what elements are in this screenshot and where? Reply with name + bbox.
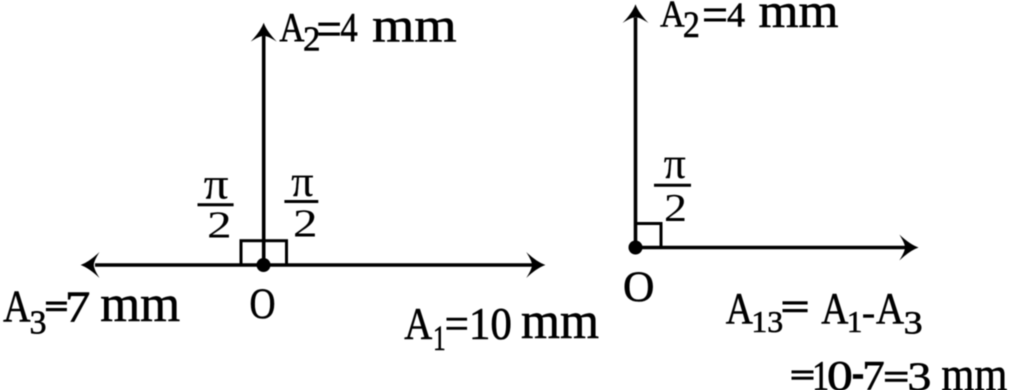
svg-text:A: A (279, 4, 304, 50)
svg-text:2: 2 (207, 204, 232, 246)
svg-text:π: π (291, 157, 314, 206)
svg-text:mm: mm (759, 0, 839, 38)
svg-text:4: 4 (340, 4, 358, 50)
right diagram: arrowhead of vector A13 (right tip) (899, 235, 918, 261)
label =10-7=3 mm: minus sign (853, 374, 863, 379)
label A13: = sign top bar (783, 301, 808, 304)
svg-text:3: 3 (904, 306, 923, 342)
right diagram: fraction bar of pi/2 (654, 184, 691, 187)
label A3: = sign bottom bar (46, 308, 67, 311)
right diagram: arrowhead of vector A2 (top tip) (623, 4, 649, 23)
left diagram: fraction bar of right pi/2 (284, 200, 318, 203)
left diagram: arrowhead of vector A3 (left tip) (81, 252, 100, 278)
label A2 (left): = sign top bar (318, 23, 340, 26)
svg-text:2: 2 (303, 20, 321, 59)
label =10-7=3: second = bottom bar (885, 379, 908, 382)
left diagram: vertical axis wire (vector A2) (262, 36, 266, 265)
svg-text:A: A (3, 281, 30, 332)
node O: left origin dot (257, 258, 271, 272)
svg-text:mm: mm (521, 293, 599, 350)
label A2 (right): = sign bottom bar (704, 18, 726, 21)
right diagram: horizontal axis wire (vector A13) (636, 246, 906, 250)
svg-text:2: 2 (293, 201, 318, 245)
svg-text:O: O (623, 263, 654, 311)
svg-text:3: 3 (907, 354, 931, 390)
svg-text:A: A (660, 0, 685, 36)
left diagram: horizontal axis wire (A3 left / A1 right) (95, 263, 532, 267)
svg-text:7: 7 (65, 283, 91, 332)
label =10-7=3: first = bottom bar (792, 377, 814, 380)
label =10-7=3: first = top bar (792, 370, 814, 373)
svg-text:A: A (876, 283, 904, 333)
label A3: = sign top bar (46, 302, 67, 305)
svg-text:A: A (726, 283, 753, 333)
label =10-7=3: second = top bar (885, 372, 908, 375)
svg-text:π: π (664, 139, 686, 188)
label A13: minus sign between A1 and A3 (863, 314, 874, 317)
svg-text:7: 7 (862, 353, 885, 390)
svg-text:mm: mm (372, 0, 457, 53)
left diagram: right-angle marker box at origin (241, 241, 287, 265)
left diagram: arrowhead of vector A1 (right tip) (526, 252, 545, 278)
svg-text:O: O (250, 280, 276, 328)
label A2 (left): = sign bottom bar (318, 33, 340, 36)
svg-text:mm: mm (100, 276, 180, 333)
label A2 (right): = sign top bar (704, 8, 726, 11)
svg-text:3: 3 (30, 304, 47, 341)
svg-text:1: 1 (847, 304, 863, 339)
svg-text:2: 2 (664, 185, 687, 229)
label A13: = sign bottom bar (783, 309, 808, 312)
svg-text:mm: mm (941, 349, 1007, 390)
svg-text:0: 0 (827, 353, 853, 390)
left diagram: arrowhead of vector A2 (top tip) (251, 23, 277, 42)
svg-text:=10: =10 (445, 299, 512, 349)
svg-text:4: 4 (727, 0, 745, 35)
svg-text:13: 13 (751, 304, 783, 339)
right diagram: vertical axis wire (vector A2) (634, 18, 638, 248)
node O: right origin dot (629, 241, 643, 255)
svg-text:π: π (204, 160, 229, 209)
svg-text:A: A (404, 298, 432, 349)
svg-text:2: 2 (683, 5, 700, 46)
svg-text:A: A (821, 283, 848, 333)
left diagram: fraction bar of left pi/2 (198, 203, 234, 206)
right diagram: right-angle marker box at origin (636, 224, 662, 248)
